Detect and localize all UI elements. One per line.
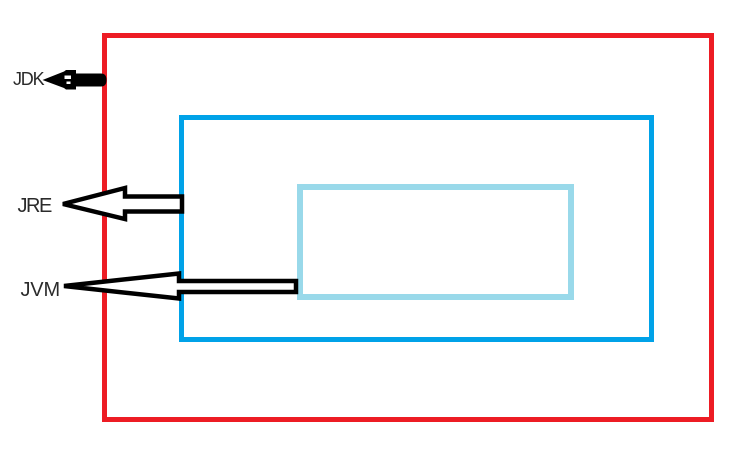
rectangle JVM (inner light-blue box)	[300, 187, 571, 297]
label JDK	[13, 69, 45, 89]
rectangle JDK (outer red box)	[105, 36, 712, 420]
arrow JRE (hollow outlined arrow pointing left at blue box)	[63, 188, 182, 219]
arrow JDK (solid black arrow pointing left at red box)	[43, 70, 107, 90]
label JRE	[18, 195, 52, 217]
arrow JVM (long hollow outlined arrow pointing left at light-blue box)	[64, 274, 296, 299]
svg-text:JRE: JRE	[18, 195, 52, 217]
label JVM	[21, 279, 60, 301]
rectangle JRE (middle blue box)	[182, 118, 652, 340]
svg-text:JDK: JDK	[13, 69, 45, 89]
svg-text:JVM: JVM	[21, 279, 60, 301]
